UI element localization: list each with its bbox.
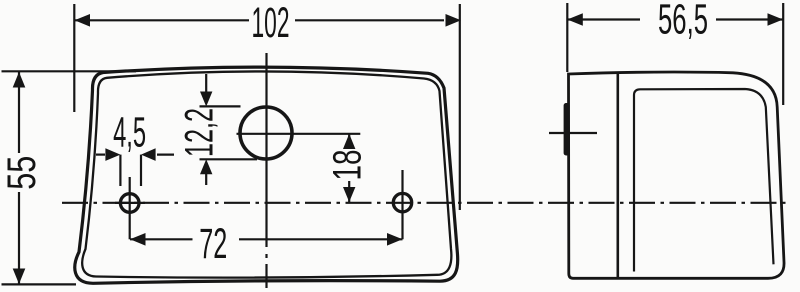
svg-text:72: 72 bbox=[199, 221, 227, 268]
svg-text:102: 102 bbox=[252, 0, 290, 47]
svg-text:56,5: 56,5 bbox=[658, 0, 708, 43]
svg-text:55: 55 bbox=[0, 156, 44, 190]
svg-text:12,2: 12,2 bbox=[178, 108, 222, 157]
svg-text:18: 18 bbox=[326, 150, 370, 181]
svg-text:4,5: 4,5 bbox=[113, 110, 146, 157]
